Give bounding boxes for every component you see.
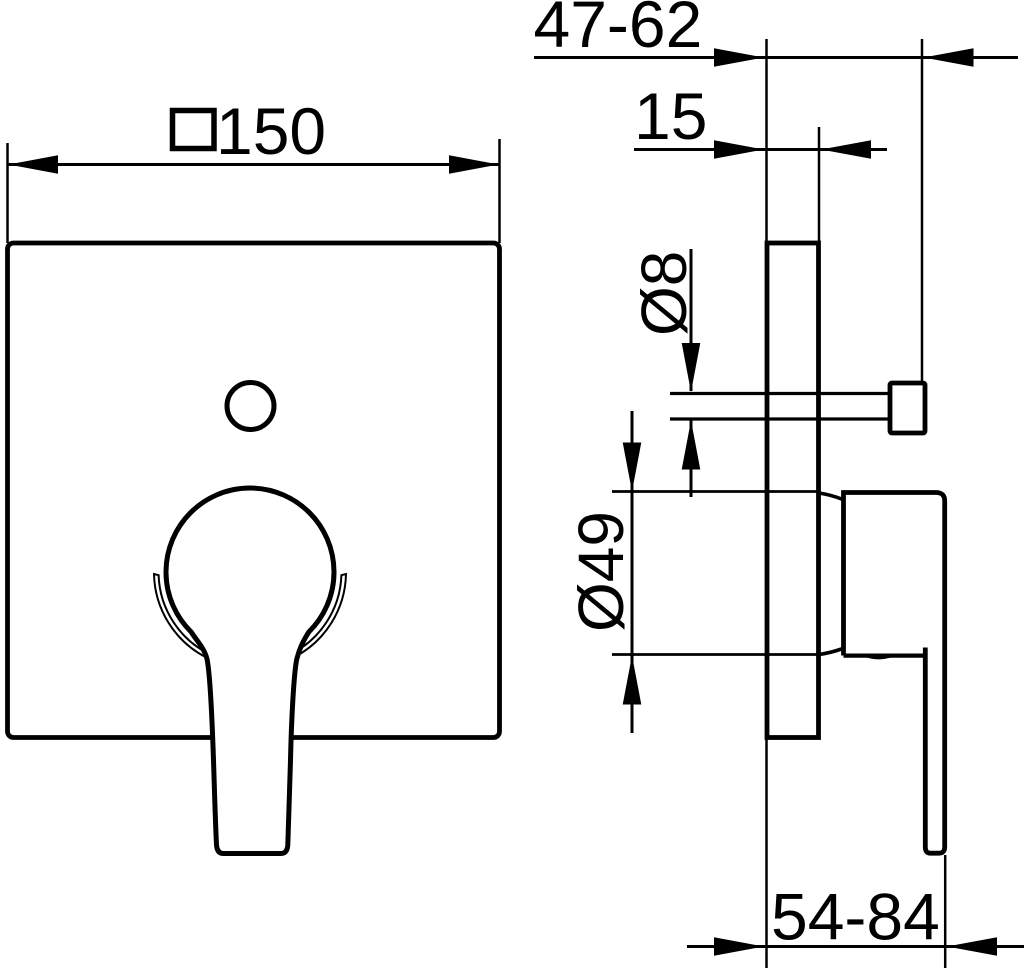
extension line right (front plate): [498, 139, 501, 243]
arrow 15 left: [714, 140, 764, 159]
extension line plate front face (top): [765, 39, 768, 243]
arrow 54-84 right: [947, 937, 997, 956]
arrow O49 down: [623, 443, 642, 492]
svg-text:150: 150: [216, 94, 326, 168]
extension line plate front face (bottom): [765, 738, 768, 968]
sleeve top edge: [819, 493, 843, 500]
cap bottom edge: [844, 653, 926, 657]
sleeve bottom edge: [819, 649, 843, 655]
square symbol of label 150: [173, 111, 215, 149]
O49 tick top: [612, 490, 820, 493]
arrow left (150): [9, 155, 59, 174]
dimension line O49 (vertical): [631, 411, 634, 733]
dimension line 15: [634, 148, 887, 151]
spindle shaft bottom line: [670, 417, 890, 420]
cap bottom bulge: [861, 655, 897, 659]
arrow 54-84 left: [714, 937, 764, 956]
faceplate (front view): [8, 243, 500, 738]
handle (knob + lever silhouette): [166, 488, 334, 853]
svg-text:Ø49: Ø49: [565, 511, 637, 632]
svg-text:47-62: 47-62: [534, 0, 703, 61]
arrow O8 down: [682, 343, 701, 392]
arrow 47-62 left: [714, 48, 764, 67]
arrow O8 up: [682, 421, 701, 470]
dimension line 47-62: [534, 56, 1018, 59]
svg-text:Ø8: Ø8: [628, 251, 700, 336]
arrow right (150): [449, 155, 499, 174]
arrow 47-62 right: [924, 48, 974, 67]
extension line lever face (bottom): [944, 855, 947, 968]
diverter button (small circle): [227, 383, 274, 430]
accent arc right (behind handle): [288, 574, 346, 658]
arrow O49 up: [623, 656, 642, 705]
svg-text:15: 15: [634, 79, 707, 153]
wall plate (side view strip): [767, 243, 819, 738]
extension line left (front plate): [6, 143, 9, 243]
svg-text:54-84: 54-84: [771, 880, 940, 954]
dimension line 150: [8, 163, 499, 166]
handle cap + lever outline (side view): [844, 493, 945, 854]
dimension line 54-84: [687, 945, 1024, 948]
dimension line O8 (vertical, upper): [690, 249, 693, 391]
O49 tick bottom: [612, 653, 820, 656]
extension line spindle end: [921, 39, 924, 383]
arrow 15 right: [821, 140, 871, 159]
extension line plate back face: [818, 127, 821, 243]
spindle shaft top line: [670, 392, 890, 395]
accent arc left (behind handle): [154, 574, 212, 658]
dimension line O8 (vertical, lower): [690, 421, 693, 498]
screw head: [890, 383, 925, 433]
